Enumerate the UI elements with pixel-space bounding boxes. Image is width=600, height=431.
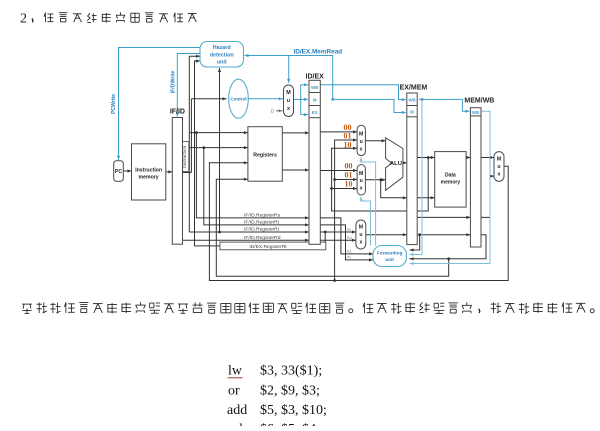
wire: EX/MEM.RegisterRd to MEM/WB <box>417 234 470 236</box>
wire: EX/MEM ALU result forwarding loop <box>332 148 429 211</box>
wire: EX/MEM ALU result to data memory address <box>417 157 435 159</box>
control unit <box>229 79 249 118</box>
svg-text:detection: detection <box>210 52 234 58</box>
PC register <box>114 161 124 182</box>
svg-text:IF/ID.RegisterRs: IF/ID.RegisterRs <box>244 213 281 219</box>
svg-text:x: x <box>360 186 363 192</box>
wire: ID/EX.RegisterRt to forwarding unit <box>320 225 373 260</box>
wire: IF/ID.RegisterRt to hazard detection (left vertical) <box>189 56 200 232</box>
wire hazard select to stall mux <box>288 56 290 83</box>
wire: IF/ID.RegisterRs <box>196 133 309 218</box>
wire: writeback forward to mux A input 01 <box>335 140 358 281</box>
instruction memory <box>132 144 166 200</box>
wire: ID/EX read data 2 to forward mux B input 00 <box>320 170 357 172</box>
svg-text:01: 01 <box>344 132 352 141</box>
svg-text:00: 00 <box>345 162 353 171</box>
wire: ID/EX.RegisterRt tap down to hazard loop <box>324 232 326 242</box>
forward mux B <box>357 165 365 195</box>
wire: MEM/WB.RegisterRd wrap to registers write register <box>216 179 448 276</box>
wire: forward mux B output to ALU <box>365 179 385 181</box>
svg-text:M: M <box>497 156 501 162</box>
stall mux <box>284 85 294 117</box>
wire: forward mux A output to ALU <box>365 140 385 142</box>
svg-text:IF/ID: IF/ID <box>170 109 185 116</box>
pipeline register MEM/WB <box>470 108 481 247</box>
svg-text:u: u <box>360 139 363 145</box>
wire: data memory read data to MEM/WB <box>466 157 470 159</box>
svg-text:Rs: Rs <box>347 250 352 254</box>
wire stall mux to ID/EX control cells <box>294 98 301 100</box>
svg-text:10: 10 <box>345 179 353 188</box>
registers <box>248 127 282 182</box>
svg-text:M: M <box>359 132 363 138</box>
svg-text:Control: Control <box>230 97 246 102</box>
svg-text:01: 01 <box>345 170 353 179</box>
svg-text:IF/DWrite: IF/DWrite <box>170 71 176 94</box>
svg-text:ID/EX.MemRead: ID/EX.MemRead <box>294 49 343 56</box>
wire IF/IDWrite from hazard unit to IF/ID <box>177 54 200 117</box>
svg-text:x: x <box>498 171 501 177</box>
wire: ID/EX read data 1 to forward mux A input 00 <box>320 131 357 133</box>
svg-text:Hazard: Hazard <box>213 45 231 51</box>
svg-text:u: u <box>497 164 500 170</box>
forward mux A <box>357 125 365 155</box>
wire: read register 2 <box>189 147 248 149</box>
svg-text:M: M <box>410 110 414 115</box>
svg-text:WB: WB <box>408 97 415 102</box>
svg-text:u: u <box>287 98 290 104</box>
svg-text:0: 0 <box>271 109 274 115</box>
svg-text:$2, $9, $3;: $2, $9, $3; <box>260 383 320 398</box>
ALU <box>386 138 403 191</box>
wire: ID/EX.RegisterRd to regdst mux <box>320 239 356 241</box>
svg-text:x: x <box>359 240 362 246</box>
wire: instruction field to hazard detection bottom <box>219 68 221 232</box>
svg-text:WB: WB <box>472 110 479 115</box>
svg-text:Rt: Rt <box>347 256 351 260</box>
svg-text:Instruction: Instruction <box>182 145 188 167</box>
wire: IF/ID.RegisterRt second <box>189 231 309 233</box>
svg-text:Rd: Rd <box>347 236 352 240</box>
svg-text:Instruction: Instruction <box>135 168 162 174</box>
wire: MEM/WB.RegisterRd to forwarding unit <box>410 235 487 259</box>
wire EX/MEM WB to MEM/WB WB <box>419 99 469 111</box>
svg-text:u: u <box>359 232 362 238</box>
wire MEM/WB RegWrite to forwarding unit <box>410 111 491 263</box>
wire: EX/MEM ALU result bypass to MEM/WB <box>417 216 470 218</box>
svg-text:$3, 33($1);: $3, 33($1); <box>260 364 322 379</box>
svg-text:add: add <box>227 403 247 418</box>
svg-text:ID/EX: ID/EX <box>306 74 325 81</box>
wire: EX/MEM forward to mux B input 10 <box>332 188 358 190</box>
wire PCWrite from hazard unit to PC <box>119 48 201 160</box>
wire: ID/EX.RegisterRt to hazard detection <box>195 61 220 246</box>
wire ID/EX WB to EX/MEM WB <box>320 85 406 100</box>
svg-text:Rt: Rt <box>347 228 351 232</box>
data memory <box>435 152 466 208</box>
wire: opcode to control <box>191 98 226 100</box>
svg-text:2: 2 <box>20 12 27 27</box>
svg-text:ID/EX.RegisterRt: ID/EX.RegisterRt <box>249 244 287 250</box>
wire: instruction memory to IF/ID <box>166 171 173 173</box>
writeback mux <box>494 152 504 182</box>
wire ForwardA from forwarding unit to mux A <box>361 157 376 245</box>
wire: read register 1 <box>189 132 248 134</box>
wire: instruction bus from IF/ID <box>183 172 192 174</box>
wire EX/MEM RegWrite to forwarding unit <box>410 99 423 254</box>
box around ID/EX.RegisterRt label <box>220 242 326 250</box>
pipeline register EX/MEM <box>407 93 417 245</box>
wire ForwardB from forwarding unit to mux B <box>361 197 371 246</box>
svg-text:M: M <box>359 171 363 177</box>
svg-text:lw: lw <box>228 364 243 379</box>
svg-text:x: x <box>360 146 363 152</box>
svg-text:memory: memory <box>441 180 461 186</box>
svg-text:PCWrite: PCWrite <box>111 94 117 114</box>
wire: PC to instruction memory <box>123 170 131 172</box>
pipeline register IF/ID <box>172 118 182 245</box>
svg-text:M: M <box>359 225 363 231</box>
svg-text:unit: unit <box>385 257 394 262</box>
hazard detection unit <box>200 42 244 68</box>
svg-text:Registers: Registers <box>253 152 277 158</box>
wire: ID/EX.RegisterRs to forwarding unit <box>320 218 373 254</box>
svg-text:unit: unit <box>217 59 227 65</box>
wire: EX/MEM write data to data memory <box>417 197 435 199</box>
svg-text:sub: sub <box>227 422 246 426</box>
label instruction vertical <box>183 142 189 172</box>
wire: regdst mux output through EX/MEM <box>366 234 407 236</box>
svg-text:EX: EX <box>312 110 318 115</box>
svg-text:$6, $5, $4;: $6, $5, $4; <box>260 422 320 426</box>
wire: MEM/WB ALU result to writeback mux <box>481 176 494 217</box>
wire: MEM/WB read data to writeback mux <box>481 157 494 159</box>
regdst mux <box>356 220 366 249</box>
svg-text:or: or <box>228 383 240 398</box>
svg-text:IF/ID.RegisterRt: IF/ID.RegisterRt <box>244 227 280 233</box>
svg-text:IF/ID.RegisterRt: IF/ID.RegisterRt <box>244 220 280 226</box>
wire: writeback mux output wrap to registers write data <box>209 163 508 281</box>
wire: IF/ID.RegisterRd <box>183 239 310 241</box>
pipeline register ID/EX <box>309 80 320 244</box>
wire: ID/EX.RegisterRt to regdst mux <box>320 231 356 233</box>
svg-text:00: 00 <box>344 123 352 132</box>
forwarding unit <box>373 246 407 267</box>
wire: ALU output to EX/MEM <box>403 162 407 164</box>
svg-text:IF/ID.RegisterRd: IF/ID.RegisterRd <box>244 235 281 241</box>
svg-text:x: x <box>287 106 290 112</box>
svg-text:EX/MEM: EX/MEM <box>400 85 428 92</box>
svg-text:WB: WB <box>311 85 318 90</box>
svg-text:PC: PC <box>115 169 122 175</box>
wire: EX/MEM.RegisterRd down to forwarding unit <box>410 235 420 250</box>
wire ID/EX.MemRead to hazard unit <box>245 56 333 100</box>
svg-text:memory: memory <box>139 175 159 181</box>
paragraph text <box>22 303 32 305</box>
wire ID/EX M to EX/MEM M <box>333 99 406 112</box>
svg-text:Forwarding: Forwarding <box>377 251 403 256</box>
svg-text:$5, $3, $10;: $5, $3, $10; <box>260 403 327 418</box>
svg-text:M: M <box>286 90 291 96</box>
svg-text:10: 10 <box>344 141 352 150</box>
svg-text:ALU: ALU <box>390 161 402 167</box>
wire: registers read data 1 to ID/EX <box>282 132 309 134</box>
wire: IF/ID.RegisterRt (to ID/EX) <box>204 148 309 225</box>
wire control to stall mux <box>248 98 282 100</box>
wire: registers read data 2 to ID/EX <box>282 169 309 171</box>
wire: writeback forward to mux B input 01 <box>335 179 358 181</box>
svg-text:u: u <box>360 178 363 184</box>
wire: ALU operand B branch through EX/MEM <box>381 180 407 198</box>
svg-text:Data: Data <box>445 173 456 179</box>
svg-text:M: M <box>313 98 317 103</box>
svg-text:MEM/WB: MEM/WB <box>464 98 494 105</box>
